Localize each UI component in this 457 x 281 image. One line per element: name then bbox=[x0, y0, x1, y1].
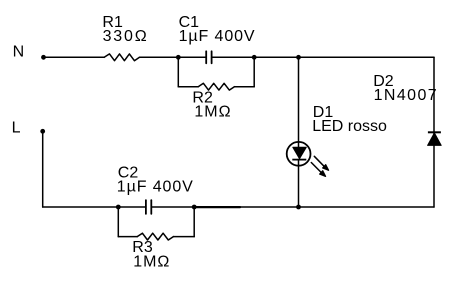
junction LED bottom bbox=[296, 205, 301, 210]
wire right vertical rail bbox=[433, 57, 435, 207]
wire R2 box bottom right bbox=[234, 86, 254, 88]
wire N to R1 bbox=[44, 56, 105, 58]
wire LED branch lower bbox=[298, 160, 300, 207]
junction C2/R3 left bbox=[116, 205, 121, 210]
junction C1/R2 right bbox=[252, 55, 257, 60]
LED D1 triangle bbox=[293, 147, 307, 158]
resistor R3 bbox=[137, 233, 173, 240]
wire segment (heavier) after C2 block bbox=[194, 206, 240, 208]
capacitor C2 bbox=[145, 200, 147, 214]
svg-text:1µF 400V: 1µF 400V bbox=[179, 28, 256, 45]
wire L vertical bbox=[42, 131, 44, 207]
wire R1 to C1 left plate bbox=[140, 56, 207, 58]
svg-text:330Ω: 330Ω bbox=[103, 28, 149, 45]
node N terminal dot bbox=[41, 55, 46, 60]
capacitor C1 bbox=[205, 51, 207, 63]
wire bottom rail left bbox=[43, 206, 146, 208]
LED D1 arrow 2 line bbox=[311, 163, 321, 173]
junction C2/R3 right bbox=[192, 205, 197, 210]
LED D1 arrow 2 head bbox=[320, 171, 326, 177]
svg-text:1MΩ: 1MΩ bbox=[194, 104, 231, 121]
junction R1/C1/R2 left bbox=[176, 55, 181, 60]
wire bottom rail right bbox=[151, 206, 434, 208]
wire R3 box right vertical bbox=[193, 207, 195, 237]
LED D1 cathode bar bbox=[292, 159, 306, 161]
svg-text:1µF 400V: 1µF 400V bbox=[117, 179, 194, 196]
diode D2 triangle bbox=[428, 133, 442, 146]
LED D1 circle bbox=[287, 142, 311, 166]
wire R2 box left vertical bbox=[177, 57, 179, 86]
svg-text:1MΩ: 1MΩ bbox=[133, 254, 170, 271]
svg-text:L: L bbox=[12, 120, 21, 137]
wire LED branch upper bbox=[298, 57, 300, 147]
svg-text:LED rosso: LED rosso bbox=[312, 118, 387, 135]
wire R2 box bottom left bbox=[178, 86, 198, 88]
LED D1 arrow 1 head bbox=[323, 165, 329, 171]
wire R3 box bottom left bbox=[118, 236, 137, 238]
wire R3 box bottom right bbox=[173, 236, 194, 238]
LED D1 arrow 1 line bbox=[314, 156, 324, 166]
wire R2 box right vertical bbox=[253, 57, 255, 86]
resistor R2 bbox=[198, 83, 234, 90]
diode D2 cathode bar bbox=[428, 131, 441, 133]
svg-text:N: N bbox=[13, 43, 25, 60]
node L terminal dot bbox=[40, 129, 45, 134]
wire C1 to top-right corner bbox=[212, 56, 434, 58]
svg-text:1N4007: 1N4007 bbox=[374, 87, 438, 104]
resistor R1 bbox=[104, 54, 139, 61]
wire R3 box left vertical bbox=[117, 207, 119, 237]
junction LED top bbox=[296, 55, 301, 60]
